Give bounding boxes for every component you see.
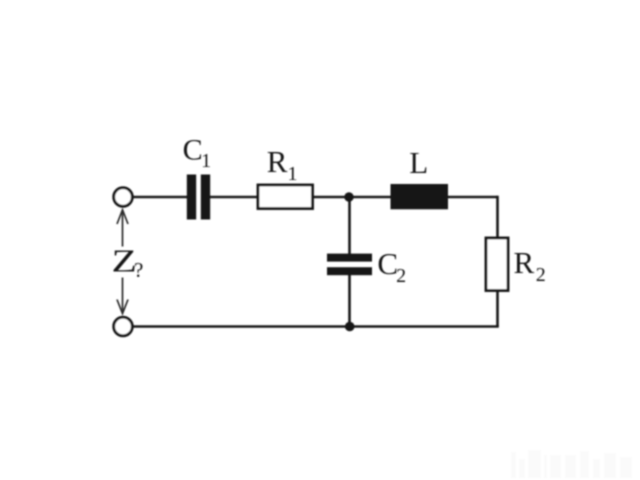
terminal (top left) (114, 188, 133, 207)
wire right rail: corner down to R2 (496, 196, 499, 237)
wire C2 branch: C2 down to node B (348, 274, 351, 327)
wire top: left terminal to C1 (132, 196, 187, 199)
wire C2 branch: node A down to C2 (348, 197, 351, 255)
capacitor C2 (plates) (327, 254, 372, 262)
resistor R1 (body) (258, 185, 313, 209)
wire top: node A to L (349, 196, 391, 199)
svg-text:R1: R1 (267, 144, 298, 185)
node A (junction dot) (344, 192, 353, 201)
svg-text:L: L (409, 145, 428, 180)
svg-text:C2: C2 (377, 246, 406, 287)
wire top: L to right corner (447, 196, 498, 199)
resistor R2 (body) (486, 238, 508, 291)
svg-text:?: ? (134, 258, 143, 282)
wire top: R1 to node A (312, 196, 349, 199)
arrow down (Z? measurement, lower) (117, 278, 128, 314)
svg-text:R2: R2 (514, 245, 546, 286)
wire bottom: left terminal to right rail (132, 325, 499, 328)
wire top: C1 to R1 (210, 196, 258, 199)
wire right rail: R2 to bottom wire (496, 291, 499, 327)
watermark (511, 450, 632, 478)
node B (junction dot, bottom) (345, 322, 355, 332)
terminal (bottom left) (114, 317, 133, 336)
capacitor C1 (plates) (187, 175, 196, 220)
arrow up (Z? measurement, upper) (117, 210, 128, 247)
svg-text:C1: C1 (183, 134, 212, 173)
inductor L (solid body) (391, 184, 449, 209)
